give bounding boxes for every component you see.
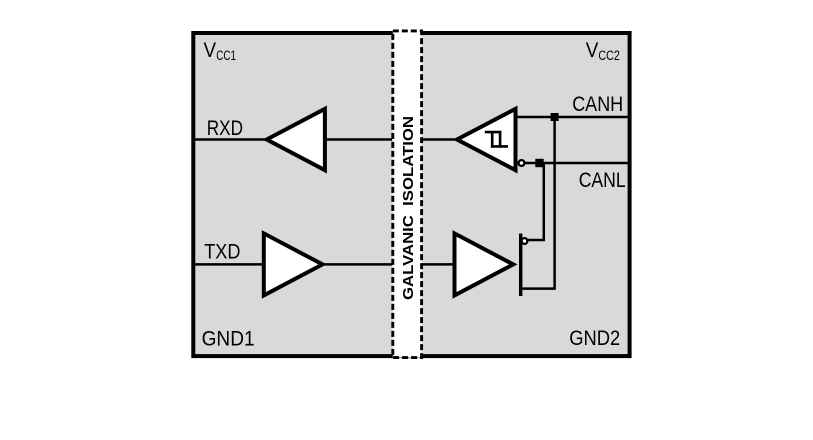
junction on CANL <box>535 159 543 167</box>
junction on CANH <box>551 113 559 121</box>
wire CANL <box>524 162 630 165</box>
inverting bubble on driver top output <box>522 238 528 244</box>
svg-text:GND1: GND1 <box>202 328 255 351</box>
galvanic isolation barrier <box>393 31 422 358</box>
wire isolation barrier to receiver apex <box>422 138 458 141</box>
svg-text:GALVANIC ISOLATION: GALVANIC ISOLATION <box>400 116 417 300</box>
svg-text:TXD: TXD <box>204 241 240 264</box>
svg-text:RXD: RXD <box>207 117 243 140</box>
pulse symbol inside receiver <box>485 131 508 148</box>
driver U4 (right-pointing) <box>455 233 514 295</box>
transceiver body box <box>193 33 629 356</box>
svg-text:V: V <box>586 39 599 62</box>
wire CANL junction down to driver inverted output <box>528 163 544 240</box>
svg-text:CANH: CANH <box>572 93 623 116</box>
wire TXD buffer output to isolation barrier <box>324 263 392 266</box>
wire isolation barrier to output driver <box>422 263 456 266</box>
svg-text:V: V <box>204 39 217 62</box>
driver output bar <box>519 234 522 297</box>
svg-text:GND2: GND2 <box>569 327 620 350</box>
wire RXD pin to buffer apex <box>194 138 266 141</box>
wire TXD pin to driver buffer <box>194 263 266 266</box>
receiver U3 (left-pointing with hysteresis pulse) <box>457 109 516 170</box>
svg-text:CC1: CC1 <box>216 48 236 63</box>
wire RXD buffer input to isolation barrier <box>324 138 392 141</box>
svg-text:CANL: CANL <box>579 169 626 192</box>
inverting bubble on receiver CANL output <box>519 160 525 166</box>
wire CANH <box>514 116 630 119</box>
buffer U1 RXD (left-pointing) <box>267 109 325 170</box>
svg-text:CC2: CC2 <box>598 48 619 63</box>
buffer U2 TXD (right-pointing) <box>264 233 323 295</box>
wire CANH junction down to driver low output <box>521 117 555 289</box>
